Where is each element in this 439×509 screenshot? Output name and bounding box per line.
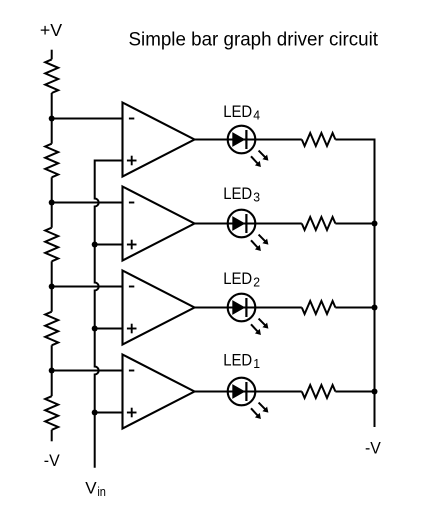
op-amp comparator 4 — [123, 103, 195, 177]
LED 4 light emission arrows — [259, 151, 266, 158]
junction: -V rail tap (row 1) — [372, 389, 378, 395]
LED 4 body circle — [228, 126, 256, 154]
junction: -V rail tap (row 2) — [372, 305, 378, 311]
pin label: inverting input (-) of comparator 3 — [129, 202, 134, 204]
wire: comparator 3 output through LED 3 to resistor — [195, 223, 302, 225]
op-amp 3 triangle body — [123, 187, 195, 261]
wire: ladder tap to comparator 4 inverting input — [52, 118, 123, 120]
LED 4 — [228, 126, 269, 167]
op-amp 1 triangle body — [123, 355, 195, 429]
wire: ladder node D (to comparator 1) — [51, 345, 53, 396]
wire: -V rail (right) — [374, 139, 376, 428]
LED 2 body circle — [228, 294, 256, 322]
junction: ladder tap node (comparator 2) — [49, 284, 55, 290]
pin label: inverting input (-) of comparator 4 — [129, 118, 134, 120]
wire: resistor 3 to -V rail — [335, 223, 375, 225]
wire: Vin vertical net (hops over inverting-input wires) — [95, 160, 99, 468]
LED 1 diode anode triangle — [232, 384, 245, 399]
LED 1 body circle — [228, 378, 256, 406]
op-amp comparator 1 — [123, 355, 195, 429]
wire: comparator 1 output through LED 1 to resistor — [195, 391, 302, 393]
junction: ladder tap node (comparator 1) — [49, 368, 55, 374]
LED 3 cathode bar — [245, 214, 247, 233]
junction: -V rail tap (row 3) — [372, 221, 378, 227]
pin label: non-inverting input (+) of comparator 4 — [127, 160, 137, 162]
svg-text:-V: -V — [365, 438, 381, 457]
junction: Vin tap (comparator 1) — [92, 410, 98, 416]
wire: ladder resistor to -V — [51, 430, 53, 442]
wire: Vin to comparator 1 non-inverting input — [95, 412, 123, 414]
pin label: inverting input (-) of comparator 1 — [129, 370, 134, 372]
svg-text:LED2: LED2 — [223, 269, 260, 290]
LED 3 body circle — [228, 210, 256, 238]
LED 2 — [228, 294, 269, 335]
svg-text:+V: +V — [40, 20, 62, 40]
LED 1 light emission arrows — [259, 403, 266, 410]
LED 2 light emission arrows — [259, 319, 266, 326]
wire: ladder tap to comparator 1 inverting input — [52, 370, 123, 372]
LED 2 cathode bar — [245, 298, 247, 317]
LED 3 diode anode triangle — [232, 216, 245, 231]
wire: resistor 4 to -V rail — [335, 139, 375, 141]
wire: Vin to comparator 3 non-inverting input — [95, 244, 123, 246]
resistor: ladder divider R (bottom, -V side) — [45, 396, 58, 430]
svg-text:Vin: Vin — [85, 478, 106, 498]
LED 3 light emission arrows — [259, 235, 266, 242]
resistor: LED 4 current-limiting resistor — [302, 133, 336, 146]
junction: Vin tap (comparator 3) — [92, 242, 98, 248]
op-amp comparator 3 — [123, 187, 195, 261]
junction: ladder tap node (comparator 4) — [49, 116, 55, 122]
op-amp 2 triangle body — [123, 271, 195, 345]
LED 3 — [228, 210, 269, 251]
LED 4 diode anode triangle — [232, 132, 245, 147]
junction: ladder tap node (comparator 3) — [49, 200, 55, 206]
junction: Vin tap (comparator 2) — [92, 326, 98, 332]
wire: Vin to comparator 4 non-inverting input — [95, 160, 123, 162]
pin label: non-inverting input (+) of comparator 1 — [127, 412, 137, 414]
LED 2 diode anode triangle — [232, 300, 245, 315]
svg-text:LED1: LED1 — [223, 350, 260, 371]
wire: ladder node B (to comparator 3) — [51, 177, 53, 227]
resistor: ladder divider R (fourth) — [45, 312, 58, 346]
pin label: non-inverting input (+) of comparator 3 — [127, 244, 137, 246]
wire: ladder node C (to comparator 2) — [51, 261, 53, 311]
wire: resistor 2 to -V rail — [335, 307, 375, 309]
wire: resistor 1 to -V rail — [335, 391, 375, 393]
LED 1 cathode bar — [245, 382, 247, 401]
resistor: ladder divider R (top, +V side) — [45, 59, 58, 93]
LED 4 cathode bar — [245, 130, 247, 149]
wire: comparator 2 output through LED 2 to resistor — [195, 307, 302, 309]
resistor: ladder divider R (third) — [45, 228, 58, 262]
svg-text:LED4: LED4 — [223, 102, 260, 123]
svg-text:Simple bar graph driver circui: Simple bar graph driver circuit — [129, 28, 379, 50]
wire: ladder node A (to comparator 4) — [51, 93, 53, 144]
svg-text:LED3: LED3 — [223, 184, 260, 205]
wire: +V to ladder resistor 1 — [51, 50, 53, 60]
resistor: LED 2 current-limiting resistor — [302, 301, 336, 314]
resistor: ladder divider R (second) — [45, 144, 58, 178]
wire: ladder tap to comparator 3 inverting input — [52, 202, 123, 204]
wire: comparator 4 output through LED 4 to resistor — [195, 139, 302, 141]
op-amp comparator 2 — [123, 271, 195, 345]
svg-text:-V: -V — [44, 451, 61, 470]
resistor: LED 1 current-limiting resistor — [302, 385, 336, 398]
LED 1 — [228, 378, 269, 419]
pin label: non-inverting input (+) of comparator 2 — [127, 328, 137, 330]
wire: ladder tap to comparator 2 inverting input — [52, 286, 123, 288]
wire: Vin to comparator 2 non-inverting input — [95, 328, 123, 330]
pin label: inverting input (-) of comparator 2 — [129, 286, 134, 288]
resistor: LED 3 current-limiting resistor — [302, 217, 336, 230]
op-amp 4 triangle body — [123, 103, 195, 177]
